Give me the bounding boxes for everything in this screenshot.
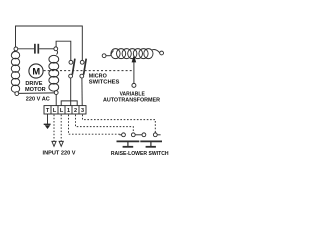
wire inner loop to micro switch 1 [56,41,71,60]
wire stub right of contact d [157,134,160,136]
svg-text:MOTOR: MOTOR [25,87,46,93]
inductor main winding L1 (left motor coil) [11,51,19,93]
wire capacitor row right [39,48,54,50]
input feed dashed L1 [53,115,55,141]
dashed control wire terminal 2 [76,115,134,133]
raise-lower switch contacts [122,133,158,137]
inductor right motor coil [49,51,59,92]
svg-text:M: M [32,66,40,76]
pushbutton raise [117,141,140,146]
ground symbol below T [44,114,51,129]
wire micro switch 1 to terminal 1-2 [70,78,72,106]
wire micro switch 2 to terminal 3 [81,78,83,106]
wire outer loop top [16,26,83,60]
node left coil bottom terminal [15,92,19,96]
node junction capacitor / right coil top [54,47,58,51]
input feed dashed L2 [60,115,62,141]
capacitor C1 plates [34,44,36,54]
micro switch S1 [69,59,75,78]
svg-text:1: 1 [67,108,70,114]
wire stub to contact a1 [120,134,122,136]
svg-text:INPUT 220 V: INPUT 220 V [43,151,76,157]
pushbutton lower [140,141,162,146]
arrowhead input L2 [59,141,63,146]
arrowhead input L1 [52,141,56,146]
svg-text:2: 2 [74,108,77,114]
dashed control wire terminal 1 [69,115,120,135]
node right coil bottom terminal [54,91,58,95]
terminal strip TB1 [44,106,86,114]
node left coil top terminal [14,47,18,51]
micro switch S2 [80,59,86,78]
svg-text:AUTOTRANSFORMER: AUTOTRANSFORMER [103,97,160,103]
svg-text:RAISE-LOWER SWITCH: RAISE-LOWER SWITCH [111,151,169,157]
dashed control wire terminal 3 [83,115,156,133]
motor M1 body [29,64,43,78]
wire capacitor row left [18,48,34,50]
wire right coil bottom to terminal L [55,95,57,106]
wire jumper strap L to 2 [61,101,77,106]
wire between contacts b-c [135,134,142,136]
autotransformer T1 [102,49,163,59]
wire motor bottom rail [19,92,55,95]
svg-text:SWITCHES: SWITCHES [89,79,120,85]
wiper arrow of autotransformer [132,55,137,88]
dashed mechanical link motor-switches-wiper [44,70,134,72]
svg-text:220 V AC: 220 V AC [26,96,50,102]
svg-text:3: 3 [81,108,84,114]
